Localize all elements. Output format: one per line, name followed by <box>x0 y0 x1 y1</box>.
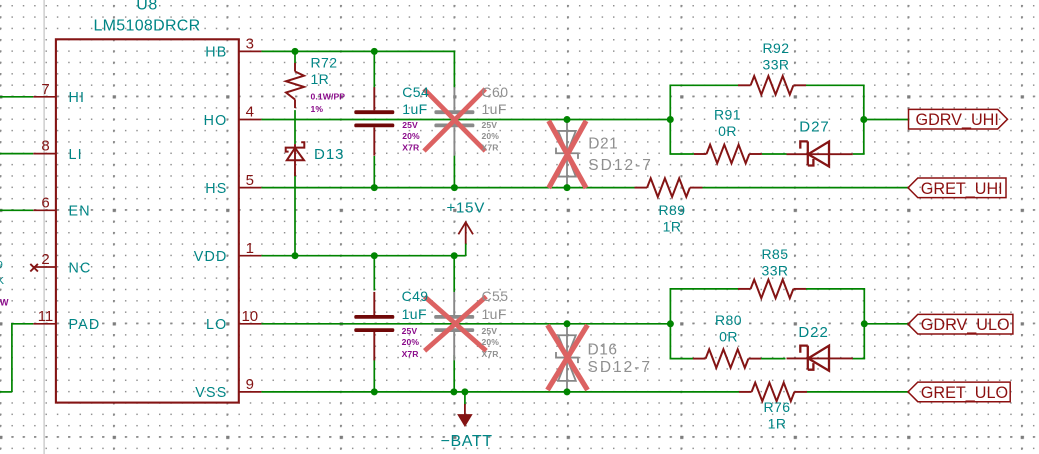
svg-text:1uF: 1uF <box>402 101 427 117</box>
svg-text:11: 11 <box>38 308 54 325</box>
svg-text:1R: 1R <box>768 416 787 432</box>
svg-text:LI: LI <box>69 147 83 163</box>
svg-text:0R: 0R <box>718 123 737 139</box>
svg-text:D13: D13 <box>314 146 345 163</box>
svg-text:R91: R91 <box>714 107 741 123</box>
svg-text:LO: LO <box>206 317 227 333</box>
svg-text:33R: 33R <box>762 263 789 279</box>
svg-text:PAD: PAD <box>69 317 101 333</box>
svg-text:1uF: 1uF <box>482 101 507 117</box>
svg-text:1uF: 1uF <box>482 306 507 322</box>
svg-text:6: 6 <box>41 194 49 211</box>
svg-text:20%: 20% <box>402 131 420 141</box>
svg-text:SD12-7: SD12-7 <box>588 359 653 376</box>
svg-text:X7R: X7R <box>402 142 420 152</box>
svg-text:9: 9 <box>246 376 254 393</box>
svg-text:D27: D27 <box>799 119 830 136</box>
svg-text:U8: U8 <box>136 0 157 14</box>
svg-text:3W: 3W <box>0 298 9 308</box>
svg-text:R89: R89 <box>659 202 686 218</box>
svg-text:VDD: VDD <box>194 249 228 265</box>
svg-text:C60: C60 <box>482 84 509 100</box>
svg-text:0.1W/PP: 0.1W/PP <box>311 91 346 101</box>
svg-text:9: 9 <box>0 259 3 271</box>
svg-text:NC: NC <box>69 260 92 276</box>
svg-text:C54: C54 <box>402 84 429 100</box>
svg-text:D22: D22 <box>798 324 829 341</box>
svg-text:GDRV_UHI: GDRV_UHI <box>916 111 999 129</box>
svg-text:0R: 0R <box>719 329 738 345</box>
svg-text:LM5108DRCR: LM5108DRCR <box>93 18 200 35</box>
svg-text:X7R: X7R <box>482 349 500 359</box>
svg-text:5: 5 <box>246 172 254 189</box>
svg-text:25V: 25V <box>482 326 498 336</box>
svg-text:GDRV_ULO: GDRV_ULO <box>921 316 1010 334</box>
svg-text:GRET_ULO: GRET_ULO <box>921 384 1008 402</box>
svg-text:SD12-7: SD12-7 <box>588 157 653 174</box>
svg-text:VSS: VSS <box>195 385 227 401</box>
svg-text:20%: 20% <box>402 337 420 347</box>
svg-text:HS: HS <box>205 181 227 197</box>
svg-text:R72: R72 <box>311 54 338 70</box>
svg-text:25V: 25V <box>482 120 498 130</box>
svg-text:HB: HB <box>205 45 227 61</box>
svg-text:R85: R85 <box>762 246 789 262</box>
svg-text:1uF: 1uF <box>402 306 427 322</box>
svg-text:25V: 25V <box>402 120 418 130</box>
svg-text:K: K <box>0 275 4 287</box>
svg-text:3: 3 <box>246 36 254 53</box>
svg-text:R80: R80 <box>715 312 742 328</box>
svg-text:C55: C55 <box>482 288 509 304</box>
svg-text:7: 7 <box>41 81 49 98</box>
svg-text:HI: HI <box>69 90 86 106</box>
svg-text:D16: D16 <box>588 342 618 359</box>
svg-text:D21: D21 <box>588 136 618 153</box>
svg-text:25V: 25V <box>402 326 418 336</box>
svg-text:−BATT: −BATT <box>441 433 493 450</box>
svg-text:C49: C49 <box>402 288 429 304</box>
svg-text:1R: 1R <box>663 219 682 235</box>
svg-text:8: 8 <box>41 138 49 155</box>
svg-text:20%: 20% <box>482 131 500 141</box>
svg-text:X7R: X7R <box>482 142 500 152</box>
svg-text:EN: EN <box>69 204 91 220</box>
svg-text:1%: 1% <box>311 104 324 114</box>
svg-text:GRET_UHI: GRET_UHI <box>921 180 1003 198</box>
svg-text:20%: 20% <box>482 337 500 347</box>
svg-text:X7R: X7R <box>402 349 420 359</box>
svg-text:4: 4 <box>246 104 254 121</box>
svg-text:33R: 33R <box>763 57 790 73</box>
svg-text:R92: R92 <box>763 40 790 56</box>
svg-text:+15V: +15V <box>446 199 485 216</box>
svg-text:HO: HO <box>204 113 228 129</box>
svg-text:R76: R76 <box>764 399 791 415</box>
svg-text:2: 2 <box>41 251 49 268</box>
svg-text:10: 10 <box>241 308 258 325</box>
svg-text:1R: 1R <box>311 71 330 87</box>
svg-text:1: 1 <box>246 240 254 257</box>
